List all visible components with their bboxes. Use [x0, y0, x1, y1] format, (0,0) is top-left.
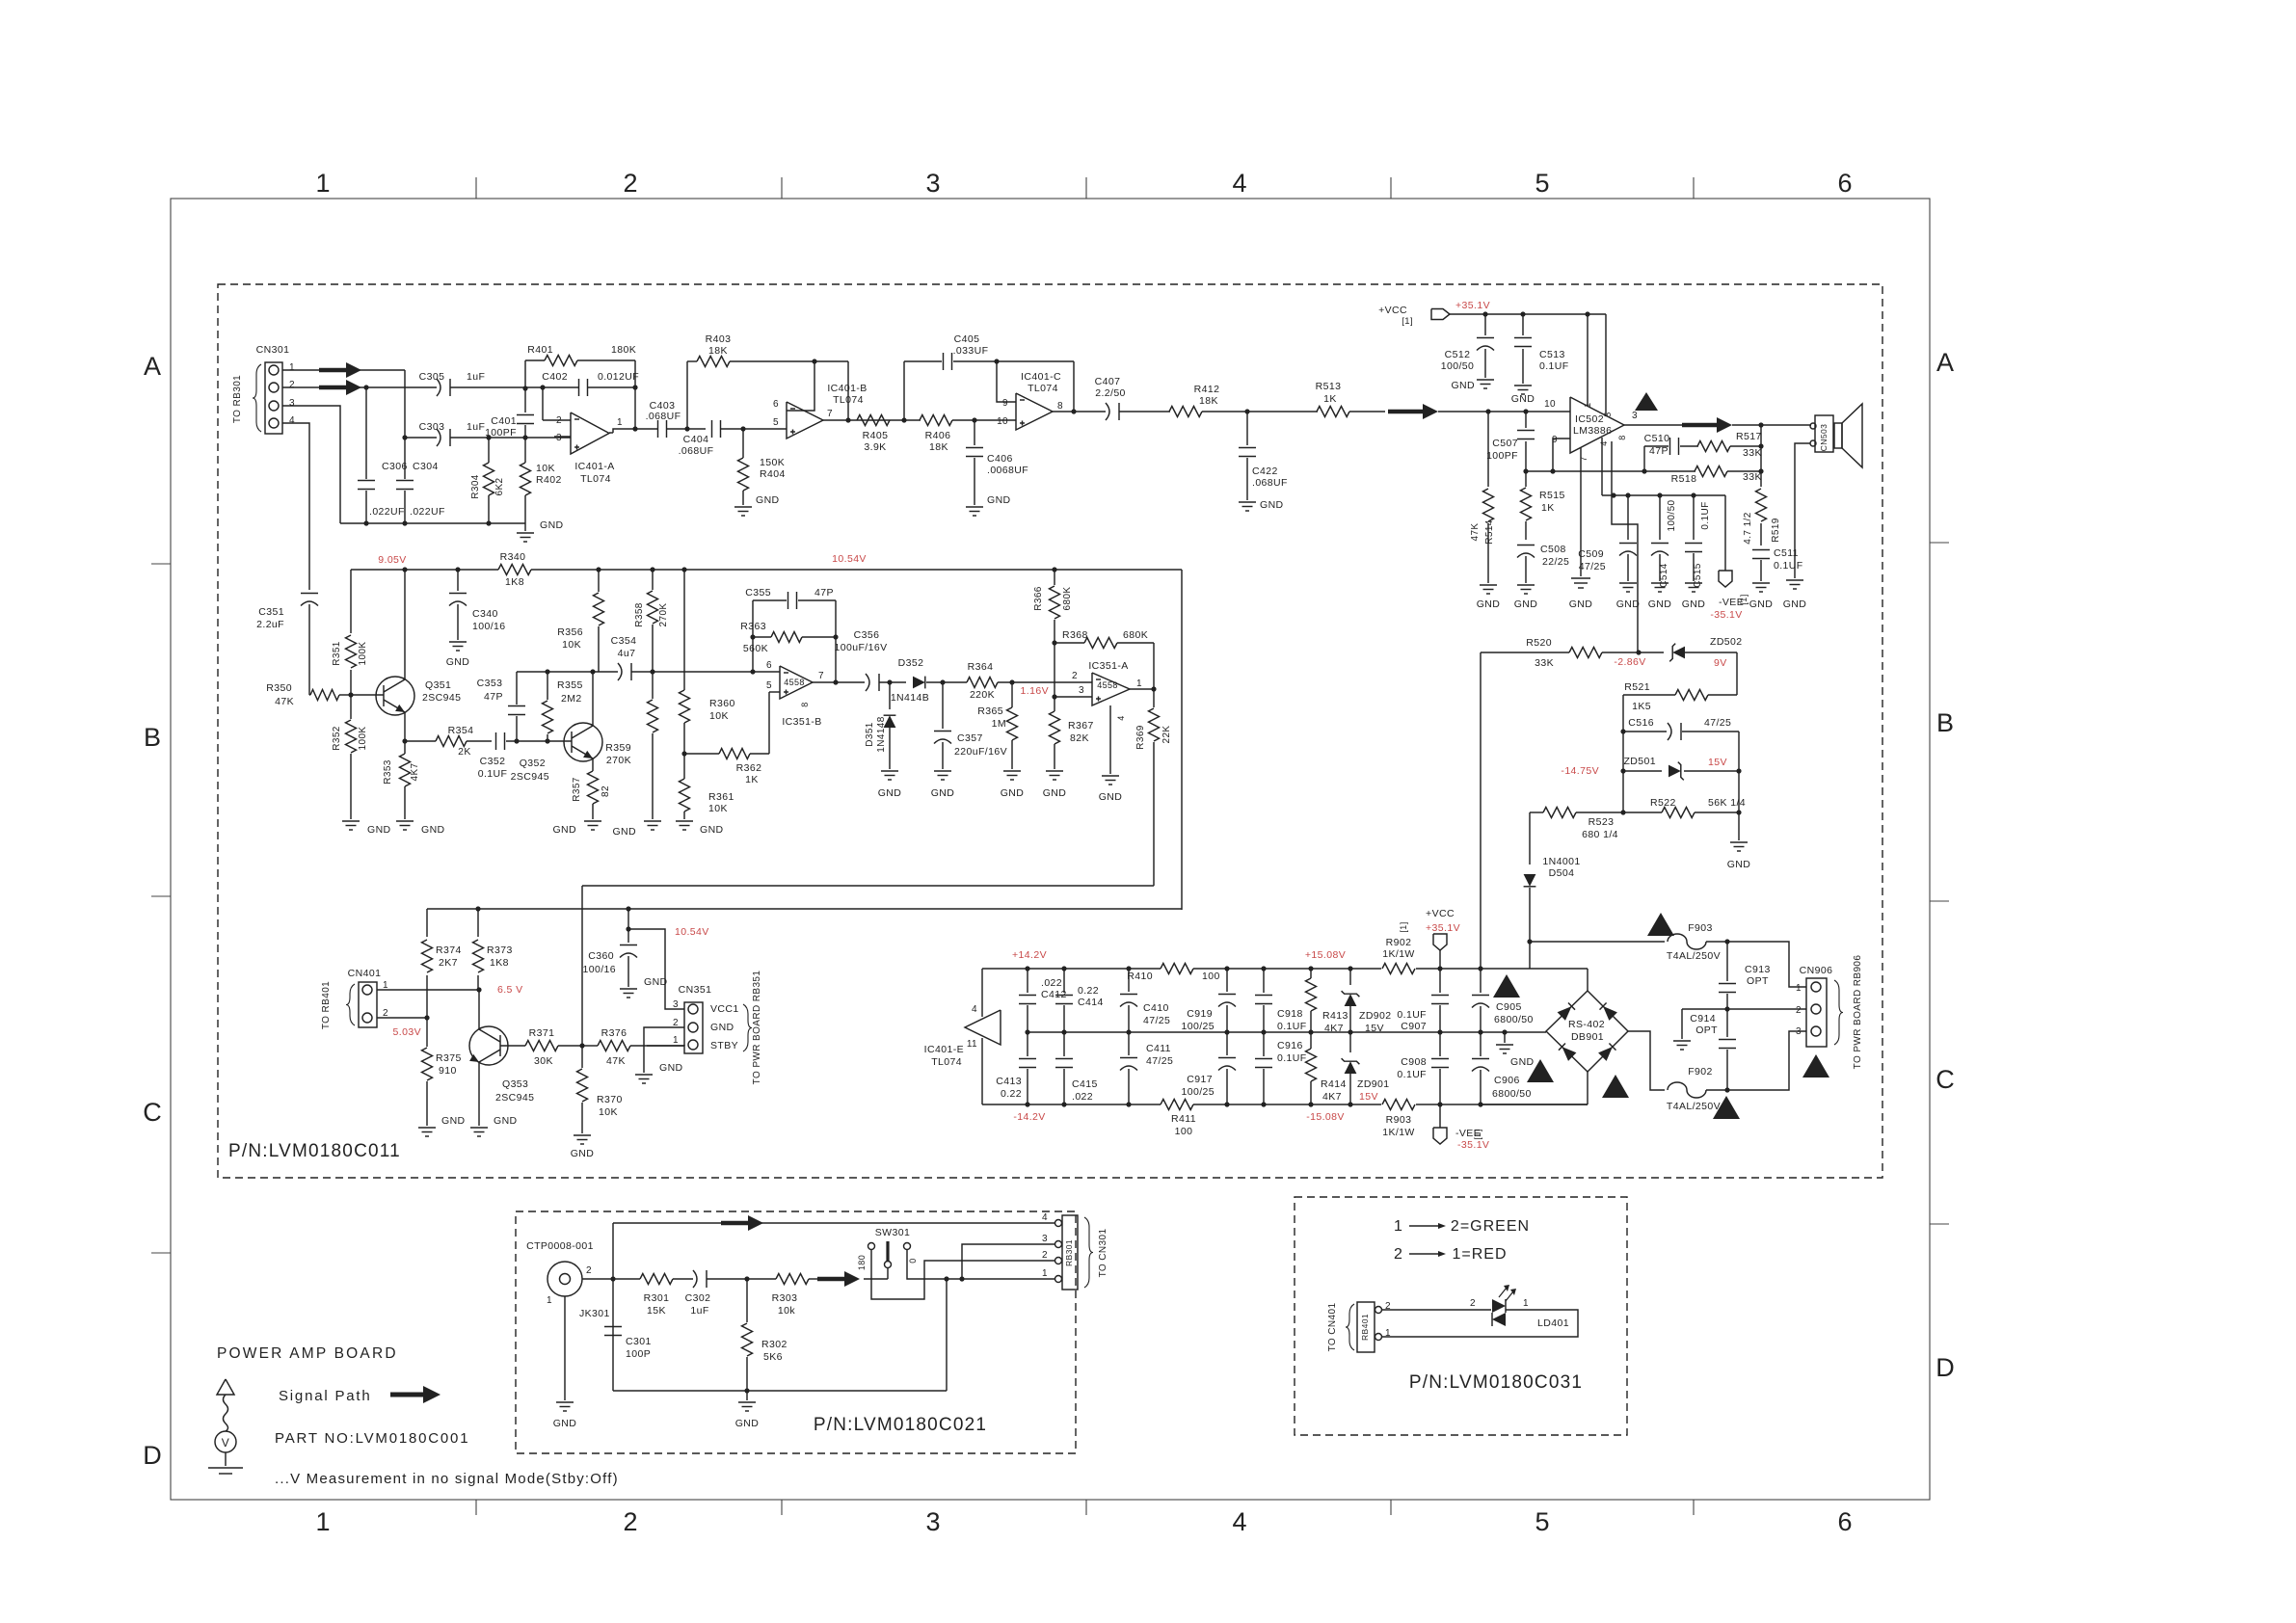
svg-text:TL074: TL074 — [931, 1056, 962, 1068]
svg-text:6: 6 — [773, 399, 779, 410]
resistor R514 47K — [1487, 412, 1489, 487]
wire Q352 emitter to R357 — [592, 758, 594, 771]
svg-text:R352: R352 — [332, 726, 342, 751]
svg-text:LM3886: LM3886 — [1573, 425, 1612, 437]
wire Q351 emitter down — [404, 712, 406, 741]
capacitor C402 0.012UF — [578, 379, 580, 396]
svg-text:5K6: 5K6 — [763, 1351, 783, 1363]
svg-text:C410: C410 — [1143, 1002, 1169, 1014]
wire RB401 pin2 to LED — [1382, 1309, 1491, 1311]
node Q351 base — [348, 692, 353, 697]
svg-text:4K7: 4K7 — [1324, 1023, 1344, 1034]
ground under C508 — [1517, 584, 1535, 586]
svg-text:GND: GND — [571, 1148, 595, 1159]
capacitor C305 1uF — [437, 379, 441, 396]
svg-text:JK301: JK301 — [579, 1308, 610, 1319]
resistor R355 2M2 — [547, 734, 548, 741]
svg-text:R522: R522 — [1650, 797, 1676, 809]
svg-text:R402: R402 — [536, 474, 562, 486]
svg-text:1: 1 — [315, 1507, 330, 1536]
svg-text:R514: R514 — [1484, 519, 1495, 545]
wire bridge AC right corner to F902 — [1628, 1031, 1665, 1090]
wire Q352 collector to node line — [592, 672, 594, 726]
wire IC401-E pin11 to bottom rail — [981, 1038, 983, 1104]
svg-text:2: 2 — [623, 169, 637, 198]
resistor R405 3.9K — [857, 415, 890, 426]
zener diode ZD902 15V — [1349, 969, 1351, 985]
node R365 top — [1009, 679, 1014, 684]
capacitor C913 OPT — [1726, 942, 1728, 981]
svg-text:C913: C913 — [1745, 964, 1771, 975]
svg-text:C402: C402 — [542, 371, 568, 383]
voltage probe symbol — [217, 1379, 234, 1395]
svg-text:6800/50: 6800/50 — [1492, 1088, 1532, 1100]
svg-text:R369: R369 — [1135, 725, 1146, 750]
capacitor C415 .022 — [1063, 1032, 1065, 1056]
svg-text:R354: R354 — [448, 725, 474, 736]
input board dashed outline — [516, 1211, 1076, 1453]
node R368 left — [1052, 640, 1056, 645]
positive rail +14.2V — [982, 968, 1161, 970]
wire CN401 pin2 to R374 column — [377, 1017, 427, 1019]
svg-text:GND: GND — [1099, 791, 1123, 803]
svg-text:R411: R411 — [1171, 1113, 1196, 1125]
svg-text:Q352: Q352 — [520, 758, 546, 769]
svg-text:C914: C914 — [1690, 1013, 1716, 1024]
resistor R367 82K — [1054, 697, 1055, 711]
svg-text:R403: R403 — [706, 333, 732, 345]
svg-text:680K: 680K — [1062, 587, 1073, 611]
svg-text:B: B — [144, 723, 161, 752]
svg-text:[1]: [1] — [1739, 594, 1749, 604]
svg-text:6: 6 — [1837, 169, 1852, 198]
wire CN906 pin2 to ground — [1682, 1008, 1806, 1010]
node C405 riser — [901, 417, 906, 422]
svg-text:C415: C415 — [1072, 1078, 1098, 1090]
svg-text:100: 100 — [1202, 971, 1220, 982]
svg-text:R518: R518 — [1671, 473, 1697, 485]
capacitor C407 2.2/50 — [1106, 403, 1109, 420]
svg-text:100/50: 100/50 — [1441, 360, 1475, 372]
resistor R520 33K — [1481, 652, 1569, 653]
capacitor C413 0.22 — [1027, 1032, 1028, 1056]
resistor R363 560K — [753, 636, 771, 638]
svg-text:F903: F903 — [1688, 922, 1713, 934]
svg-text:2K7: 2K7 — [439, 957, 458, 969]
svg-text:1K: 1K — [1323, 393, 1337, 405]
node C403-C404 — [684, 426, 689, 431]
capacitor C410 47/25 — [1128, 969, 1130, 992]
warning triangle at IC502 — [1635, 392, 1658, 411]
signal path arrow to IC502 — [1388, 410, 1423, 414]
ground under R359 — [644, 820, 661, 822]
zener diode ZD502 9V — [1639, 652, 1664, 653]
resistor R902 1K/1W — [1382, 964, 1415, 974]
svg-text:3: 3 — [289, 398, 295, 409]
ground CN906 pin2 — [1673, 1040, 1691, 1042]
wire R368 column to pin3 — [1054, 643, 1055, 697]
svg-text:GND: GND — [446, 656, 470, 668]
svg-text:P/N:LVM0180C021: P/N:LVM0180C021 — [814, 1415, 987, 1435]
svg-text:2: 2 — [1072, 671, 1078, 681]
svg-text:100PF: 100PF — [485, 427, 517, 439]
svg-text:C354: C354 — [611, 635, 637, 647]
resistor R369 22K — [1153, 689, 1155, 707]
signal path arrow top — [721, 1221, 748, 1226]
svg-text:220uF/16V: 220uF/16V — [954, 746, 1007, 758]
svg-text:TO CN301: TO CN301 — [1098, 1229, 1108, 1278]
wire IC351-B output — [813, 681, 865, 683]
negative rail -14.2V — [982, 1104, 1161, 1105]
svg-text:RB301: RB301 — [1064, 1239, 1074, 1266]
svg-text:10K: 10K — [709, 710, 729, 722]
svg-text:1: 1 — [547, 1295, 552, 1306]
svg-text:C919: C919 — [1187, 1008, 1213, 1020]
resistor R359 270K — [652, 672, 654, 699]
svg-text:T4AL/250V: T4AL/250V — [1667, 1101, 1721, 1112]
node R520-ZD502 — [1636, 650, 1641, 654]
svg-text:2SC945: 2SC945 — [422, 692, 461, 704]
svg-text:CN503: CN503 — [1819, 424, 1829, 451]
svg-text:GND: GND — [441, 1115, 466, 1127]
resistor R404 150K — [742, 429, 744, 458]
resistor R375 910 — [426, 1018, 428, 1047]
resistor R370 10K — [581, 1046, 583, 1068]
svg-text:SW301: SW301 — [875, 1227, 910, 1238]
feedback riser left — [750, 669, 755, 674]
svg-text:18K: 18K — [929, 441, 948, 453]
ground under R365 — [1003, 770, 1021, 772]
node VCC1 riser — [626, 926, 630, 931]
svg-text:GND: GND — [756, 494, 780, 506]
op-amp IC502 LM3886 — [1570, 397, 1624, 453]
svg-text:R373: R373 — [487, 945, 513, 956]
svg-text:C513: C513 — [1539, 349, 1565, 360]
svg-text:GND: GND — [644, 976, 668, 988]
svg-text:3: 3 — [1796, 1026, 1802, 1037]
svg-text:1: 1 — [315, 169, 330, 198]
svg-text:+35.1V: +35.1V — [1455, 300, 1490, 311]
svg-text:C411: C411 — [1146, 1043, 1171, 1054]
svg-text:A: A — [144, 352, 161, 381]
svg-text:STBY: STBY — [710, 1040, 738, 1051]
svg-text:GND: GND — [1451, 380, 1475, 391]
resistor R413 4K7 — [1310, 969, 1312, 978]
capacitor C422 .068UF — [1246, 412, 1248, 445]
resistor R340 1K8 — [498, 565, 531, 575]
svg-text:R519: R519 — [1771, 518, 1781, 543]
svg-text:C: C — [143, 1098, 162, 1127]
svg-text:4: 4 — [1232, 1507, 1246, 1536]
ground under C515 — [1685, 582, 1702, 584]
border frame — [171, 199, 1930, 1500]
svg-text:C306: C306 — [382, 461, 408, 472]
wire CN301 pin1 to C303 node — [282, 369, 319, 371]
svg-text:C916: C916 — [1277, 1040, 1303, 1051]
svg-text:.068UF: .068UF — [646, 411, 681, 422]
warning triangle near C905 — [1493, 974, 1520, 998]
resistor R362 1K — [684, 753, 719, 755]
ground IC351-A pin4 — [1109, 705, 1111, 774]
svg-text:3.9K: 3.9K — [864, 441, 886, 453]
capacitor C360 100/16 — [627, 909, 629, 943]
svg-text:[1]: [1] — [1473, 1129, 1482, 1139]
capacitor C354 4u7 — [618, 663, 622, 680]
svg-text:IC502: IC502 — [1575, 413, 1604, 425]
svg-text:GND: GND — [1783, 599, 1807, 610]
svg-text:R353: R353 — [383, 759, 393, 785]
svg-text:C414: C414 — [1078, 997, 1104, 1008]
capacitor C514 100/50 — [1659, 495, 1661, 540]
svg-text:6K2: 6K2 — [494, 477, 505, 495]
svg-text:2: 2 — [289, 380, 295, 390]
resistor R376 47K — [582, 1045, 598, 1047]
svg-text:GND: GND — [1648, 599, 1672, 610]
svg-text:0.1UF: 0.1UF — [1397, 1009, 1427, 1021]
svg-text:5: 5 — [766, 680, 772, 691]
svg-text:R301: R301 — [644, 1292, 670, 1304]
resistor R302 5K6 — [746, 1279, 748, 1322]
svg-text:CN351: CN351 — [679, 984, 712, 996]
svg-text:R351: R351 — [332, 641, 342, 666]
fuse F903 T4AL/250V — [1668, 934, 1706, 949]
wire IC401-A +input — [554, 436, 571, 438]
svg-text:1: 1 — [1136, 678, 1142, 689]
svg-text:100K: 100K — [358, 727, 368, 751]
svg-text:1: 1 — [1796, 983, 1802, 994]
svg-text:TO CN401: TO CN401 — [1327, 1303, 1338, 1352]
svg-text:22K: 22K — [1161, 726, 1172, 744]
svg-text:GND: GND — [700, 824, 724, 836]
resistor R350 47K — [309, 694, 310, 696]
svg-text:1: 1 — [1394, 1218, 1403, 1235]
ground under D351 — [881, 770, 898, 772]
svg-text:C360: C360 — [588, 950, 614, 962]
op-amp IC351-A 4558 — [1092, 673, 1130, 705]
svg-text:C918: C918 — [1277, 1008, 1303, 1020]
svg-text:C405: C405 — [954, 333, 980, 345]
svg-text:R405: R405 — [863, 430, 889, 441]
resistor R414 4K7 — [1310, 1032, 1312, 1049]
ground under C509 — [1619, 582, 1637, 584]
capacitor C511 0.1UF — [1752, 549, 1770, 551]
warning triangle before F903 — [1647, 913, 1674, 936]
ground under C357 — [934, 770, 951, 772]
svg-text:+35.1V: +35.1V — [1426, 922, 1460, 934]
ground under R370 — [574, 1134, 591, 1136]
svg-text:R413: R413 — [1322, 1010, 1348, 1022]
wire switch 0 contact to RB301 pin1 — [907, 1250, 1055, 1279]
svg-text:.022UF: .022UF — [369, 506, 405, 518]
svg-text:1: 1 — [617, 417, 623, 428]
capacitor C916 0.1UF — [1263, 1032, 1265, 1056]
wire IC401-B output — [823, 419, 904, 421]
svg-text:4.7 1/2: 4.7 1/2 — [1743, 512, 1753, 544]
svg-text:22/25: 22/25 — [1542, 556, 1569, 568]
svg-text:GND: GND — [1569, 599, 1593, 610]
svg-text:R350: R350 — [266, 682, 292, 694]
capacitor C917 100/25 — [1226, 1032, 1228, 1055]
svg-text:IC351-B: IC351-B — [782, 716, 821, 728]
ground under C406 — [966, 506, 983, 508]
svg-text:5: 5 — [773, 417, 779, 428]
svg-text:GND: GND — [1477, 599, 1501, 610]
svg-text:C512: C512 — [1445, 349, 1471, 360]
svg-text:4K7: 4K7 — [410, 762, 420, 781]
svg-text:15V: 15V — [1359, 1091, 1378, 1103]
wire IC401-B -input pin6 — [787, 361, 814, 411]
svg-text:GND: GND — [494, 1115, 518, 1127]
svg-text:0.1UF: 0.1UF — [1277, 1052, 1307, 1064]
svg-text:10K: 10K — [708, 803, 728, 814]
svg-text:R515: R515 — [1539, 490, 1565, 501]
node STBY junction — [579, 1043, 584, 1048]
svg-text:TO RB401: TO RB401 — [321, 981, 332, 1029]
svg-text:100PF: 100PF — [1486, 450, 1518, 462]
svg-text:8: 8 — [800, 702, 810, 706]
svg-text:0.1UF: 0.1UF — [1539, 360, 1569, 372]
svg-text:47K: 47K — [1470, 523, 1481, 542]
svg-text:6.5 V: 6.5 V — [497, 984, 523, 996]
svg-text:47P: 47P — [814, 587, 834, 599]
svg-text:10K: 10K — [599, 1106, 618, 1118]
fuse F902 T4AL/250V — [1668, 1082, 1706, 1098]
supply rail block B — [351, 569, 498, 571]
resistor R358 270K — [652, 570, 654, 590]
svg-text:.0068UF: .0068UF — [987, 465, 1028, 476]
svg-text:DB901: DB901 — [1571, 1031, 1604, 1043]
svg-text:C301: C301 — [626, 1336, 652, 1347]
wire JK301 pin2 to node — [582, 1278, 640, 1280]
svg-text:P/N:LVM0180C011: P/N:LVM0180C011 — [228, 1141, 401, 1161]
wire R368 feedback to output — [1153, 643, 1155, 689]
svg-text:2: 2 — [556, 415, 562, 426]
svg-text:2: 2 — [1394, 1246, 1403, 1263]
ground mid input board — [746, 1391, 748, 1400]
svg-text:1M: 1M — [992, 718, 1006, 730]
svg-text:R367: R367 — [1068, 720, 1094, 732]
resistor R368 680K — [1055, 642, 1084, 644]
svg-text:C406: C406 — [987, 453, 1013, 465]
svg-text:R340: R340 — [500, 551, 526, 563]
svg-text:C908: C908 — [1401, 1056, 1427, 1068]
svg-text:1: 1 — [1523, 1298, 1529, 1309]
svg-text:IC351-A: IC351-A — [1088, 660, 1128, 672]
node C357 top — [940, 679, 945, 684]
ground under C422 — [1239, 501, 1256, 503]
svg-text:18K: 18K — [1199, 395, 1218, 407]
svg-text:GND: GND — [710, 1022, 734, 1033]
resistor R371 30K — [500, 1045, 525, 1047]
resistor R412 18K — [1169, 407, 1202, 417]
row tick marks right — [1930, 542, 1949, 544]
wire bridge minus corner to negative rail — [1587, 1072, 1589, 1104]
resistor R360 10K — [683, 570, 685, 690]
power ground under pin7 — [1571, 577, 1590, 579]
svg-text:10.54V: 10.54V — [675, 926, 709, 938]
ground CN503 return — [1786, 579, 1803, 581]
svg-text:R523: R523 — [1589, 816, 1615, 828]
svg-text:R370: R370 — [597, 1094, 623, 1105]
power flag -VEE at IC502 — [1724, 495, 1726, 571]
wire R520 to +VCC flag column — [1480, 652, 1482, 969]
svg-text:Signal Path: Signal Path — [279, 1388, 372, 1404]
warning triangle right of bridge — [1602, 1075, 1629, 1098]
svg-text:C906: C906 — [1494, 1075, 1520, 1086]
wire IC502 pin4 to bypass row — [1601, 438, 1603, 495]
svg-text:18K: 18K — [708, 345, 728, 357]
wire R521 to C516 / ZD501 / R522 column left — [1622, 695, 1624, 812]
resistor R303 10k — [776, 1274, 809, 1285]
node R354 left — [402, 738, 407, 743]
svg-text:R371: R371 — [529, 1027, 555, 1039]
svg-text:C355: C355 — [745, 587, 771, 599]
resistor R903 1K/1W — [1382, 1100, 1415, 1110]
svg-text:GND: GND — [1749, 599, 1774, 610]
wire IC502 pin9 to feedback row — [1553, 439, 1570, 471]
svg-text:C352: C352 — [480, 756, 506, 767]
column tick marks bottom — [475, 1500, 477, 1515]
node R358 bottom — [650, 669, 654, 674]
ground under R352 — [342, 820, 360, 822]
wire CN301 pin3 to ground rail — [282, 406, 340, 523]
svg-text:IC401-B: IC401-B — [827, 383, 867, 394]
svg-text:C357: C357 — [957, 732, 983, 744]
capacitor C306 .022UF — [365, 387, 367, 479]
svg-text:1: 1 — [673, 1035, 679, 1046]
capacitor C302 1uF — [693, 1270, 697, 1288]
resistor R411 100 — [1161, 1100, 1193, 1110]
ground under R375 — [418, 1127, 436, 1129]
svg-text:15K: 15K — [647, 1305, 666, 1317]
capacitor C507 100PF — [1525, 412, 1527, 428]
svg-text:100/16: 100/16 — [582, 964, 616, 975]
svg-text:100/50: 100/50 — [1667, 499, 1677, 531]
svg-text:4: 4 — [289, 415, 295, 426]
ground under C514 — [1651, 582, 1669, 584]
capacitor C304 .022UF — [402, 435, 407, 439]
node C913 pin2 line — [1724, 1006, 1729, 1011]
svg-text:30K: 30K — [534, 1055, 553, 1067]
svg-text:4: 4 — [1599, 440, 1609, 445]
ground under Q353 — [470, 1127, 488, 1129]
svg-text:2: 2 — [623, 1507, 637, 1536]
wire LED to RB401 pin1 loop — [1382, 1310, 1578, 1337]
svg-text:7: 7 — [818, 671, 824, 681]
transistor Q352 2SC945 — [564, 723, 602, 761]
svg-text:2.2uF: 2.2uF — [256, 619, 284, 630]
svg-text:10K: 10K — [536, 463, 555, 474]
wire JK301 ground — [564, 1296, 566, 1400]
svg-text:R356: R356 — [557, 626, 583, 638]
bridge rectifier RS-402 DB901 — [1546, 991, 1628, 1072]
svg-text:10.54V: 10.54V — [832, 553, 867, 565]
svg-text:CN906: CN906 — [1800, 965, 1833, 976]
svg-text:TL074: TL074 — [1028, 383, 1058, 394]
node C353 bottom — [514, 738, 519, 743]
node output feedback column — [1760, 425, 1762, 487]
svg-text:1K/1W: 1K/1W — [1382, 948, 1415, 960]
svg-text:GND: GND — [1260, 499, 1284, 511]
svg-text:.068UF: .068UF — [679, 445, 714, 457]
wire IC502 output to CN503 — [1624, 424, 1682, 426]
resistor R523 680 1/4 — [1530, 811, 1543, 813]
svg-text:C404: C404 — [683, 434, 709, 445]
row tick marks left — [151, 563, 171, 565]
capacitor C906 6800/50 — [1480, 1032, 1482, 1056]
svg-text:CN301: CN301 — [256, 344, 290, 356]
capacitor C515 0.1UF — [1693, 495, 1695, 540]
